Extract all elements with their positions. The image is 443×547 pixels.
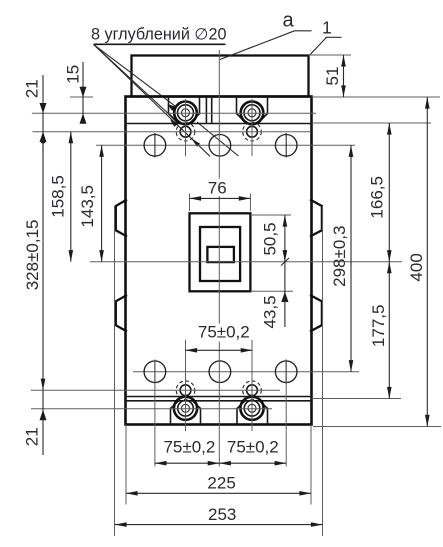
svg-text:298±0,3: 298±0,3	[330, 226, 349, 287]
bolt axis bottom-right	[251, 340, 253, 431]
terminal bracket right	[237, 97, 268, 124]
latch left lower	[116, 295, 127, 332]
dim 76	[190, 178, 251, 198]
svg-text:76: 76	[208, 178, 227, 197]
recess (dashed) top-left	[176, 122, 195, 141]
dim 328±0.15 left	[23, 132, 43, 391]
svg-text:43,5: 43,5	[261, 295, 280, 328]
node 1 leader wire	[309, 37, 327, 56]
bolt U1 top-left	[174, 102, 197, 125]
latch right lower	[310, 295, 322, 332]
terminal bracket left	[169, 97, 200, 124]
hole top-left	[144, 135, 166, 157]
stray diagonal line	[197, 122, 239, 156]
dim 158.5 left	[48, 132, 71, 262]
svg-text:75±0,2: 75±0,2	[163, 437, 215, 456]
svg-text:75±0,2: 75±0,2	[227, 437, 279, 456]
latch right extension down	[322, 206, 324, 536]
dim 51 right	[323, 55, 344, 97]
body left extension down	[125, 425, 127, 505]
strip dividers	[206, 97, 211, 124]
hole bottom-left tick	[154, 360, 156, 385]
svg-text:158,5: 158,5	[48, 175, 67, 218]
recess row centerline bottom	[31, 389, 280, 391]
cover top extension right	[309, 54, 352, 56]
recess (dashed) bottom-right	[243, 381, 262, 400]
handle toggle	[207, 247, 234, 262]
note underline	[94, 43, 226, 45]
bottom hole row centerline	[133, 371, 359, 373]
recess row centerline top	[33, 131, 312, 133]
top hole row centerline	[96, 144, 355, 146]
hole top-left tick	[154, 133, 156, 158]
hole top-center	[209, 135, 231, 157]
node a leader wire	[220, 31, 295, 60]
svg-text:21: 21	[22, 79, 41, 98]
handle window outer	[190, 213, 251, 291]
latch right upper	[310, 200, 322, 237]
body top extension right	[312, 96, 441, 98]
main horizontal centerline	[90, 261, 402, 263]
svg-text:177,5: 177,5	[369, 305, 388, 348]
dim 253 bottom	[115, 505, 323, 525]
recess (dashed) top-right	[243, 122, 262, 141]
leader wire through recess circle	[94, 44, 211, 156]
node a leader shelf	[295, 30, 312, 32]
hole bottom-right	[275, 361, 297, 383]
bolt axis bottom-left	[185, 340, 187, 431]
dim 75±0.2 bottom-left	[155, 437, 219, 463]
body top extension left	[70, 96, 93, 98]
dim 43.5 ext line	[250, 290, 293, 292]
vertical axis centerline	[218, 50, 220, 467]
handle window middle	[200, 227, 240, 281]
body outline	[126, 97, 312, 425]
bolt top-right	[241, 102, 264, 125]
dim 400 right	[407, 97, 428, 427]
bolt row centerline top	[32, 112, 316, 114]
hole top-right	[275, 135, 297, 157]
hole bottom-left	[144, 361, 166, 383]
hole bottom-center	[209, 361, 231, 383]
dim 166.5 right	[367, 123, 389, 262]
svg-text:400: 400	[407, 253, 426, 281]
strip bottom extension right	[312, 122, 432, 124]
svg-text:143,5: 143,5	[78, 185, 97, 228]
dim 225 bottom	[126, 474, 311, 494]
bolt bottom-right	[240, 397, 263, 420]
node 1 leader shelf	[326, 36, 342, 38]
svg-text:1: 1	[322, 18, 332, 38]
leader wire to upper bolt	[94, 44, 176, 106]
recess (dashed) bottom-left	[176, 381, 195, 400]
svg-text:21: 21	[23, 427, 42, 446]
dim 21 top-left	[22, 75, 46, 152]
dim 21 bottom-left	[23, 390, 47, 455]
bottom bracket right	[237, 401, 268, 425]
svg-text:328±0,15: 328±0,15	[23, 220, 42, 291]
bolt row centerline bottom	[31, 408, 272, 410]
dim 298±0.3 right	[330, 145, 351, 371]
dim 50.5	[260, 215, 289, 266]
svg-text:8 углублений ∅20: 8 углублений ∅20	[91, 26, 226, 44]
leader wire to bolt lower edge	[94, 44, 179, 122]
cover (top face) rect	[132, 56, 309, 97]
svg-text:166,5: 166,5	[367, 176, 386, 219]
svg-text:75±0,2: 75±0,2	[198, 323, 250, 342]
bottom bracket left	[171, 401, 201, 425]
bottom strip lines	[126, 397, 312, 401]
svg-text:а: а	[283, 10, 295, 32]
latch left upper	[116, 200, 127, 237]
hole top-right tick	[285, 133, 287, 158]
body bottom extension right	[313, 426, 441, 428]
svg-text:50,5: 50,5	[260, 222, 279, 255]
top terminal strip bottom line	[126, 123, 312, 125]
bolt axis top-right	[251, 99, 253, 156]
bolt axis top-left	[185, 99, 187, 156]
dim 50.5 ext line	[250, 214, 291, 216]
hole column extension right	[285, 360, 287, 467]
dim 177.5 right	[369, 262, 389, 399]
bottom strip extension right	[312, 398, 402, 400]
svg-text:225: 225	[207, 474, 235, 493]
dim 75±0.2 bottom-right	[219, 437, 286, 463]
svg-text:253: 253	[208, 505, 236, 524]
svg-text:15: 15	[64, 65, 83, 84]
dim 143.5 left	[78, 145, 102, 261]
hole column extension left	[154, 360, 156, 467]
body right extension down	[310, 425, 312, 505]
latch left extension down	[114, 206, 116, 536]
dim 15 left	[64, 62, 87, 124]
hole bottom-right tick	[285, 360, 287, 385]
svg-text:51: 51	[323, 67, 342, 86]
dim 76 ext lines	[190, 194, 251, 212]
dim 75±0.2 middle	[186, 323, 253, 351]
dim 43.5	[261, 262, 289, 329]
bolt bottom-left	[174, 397, 197, 420]
